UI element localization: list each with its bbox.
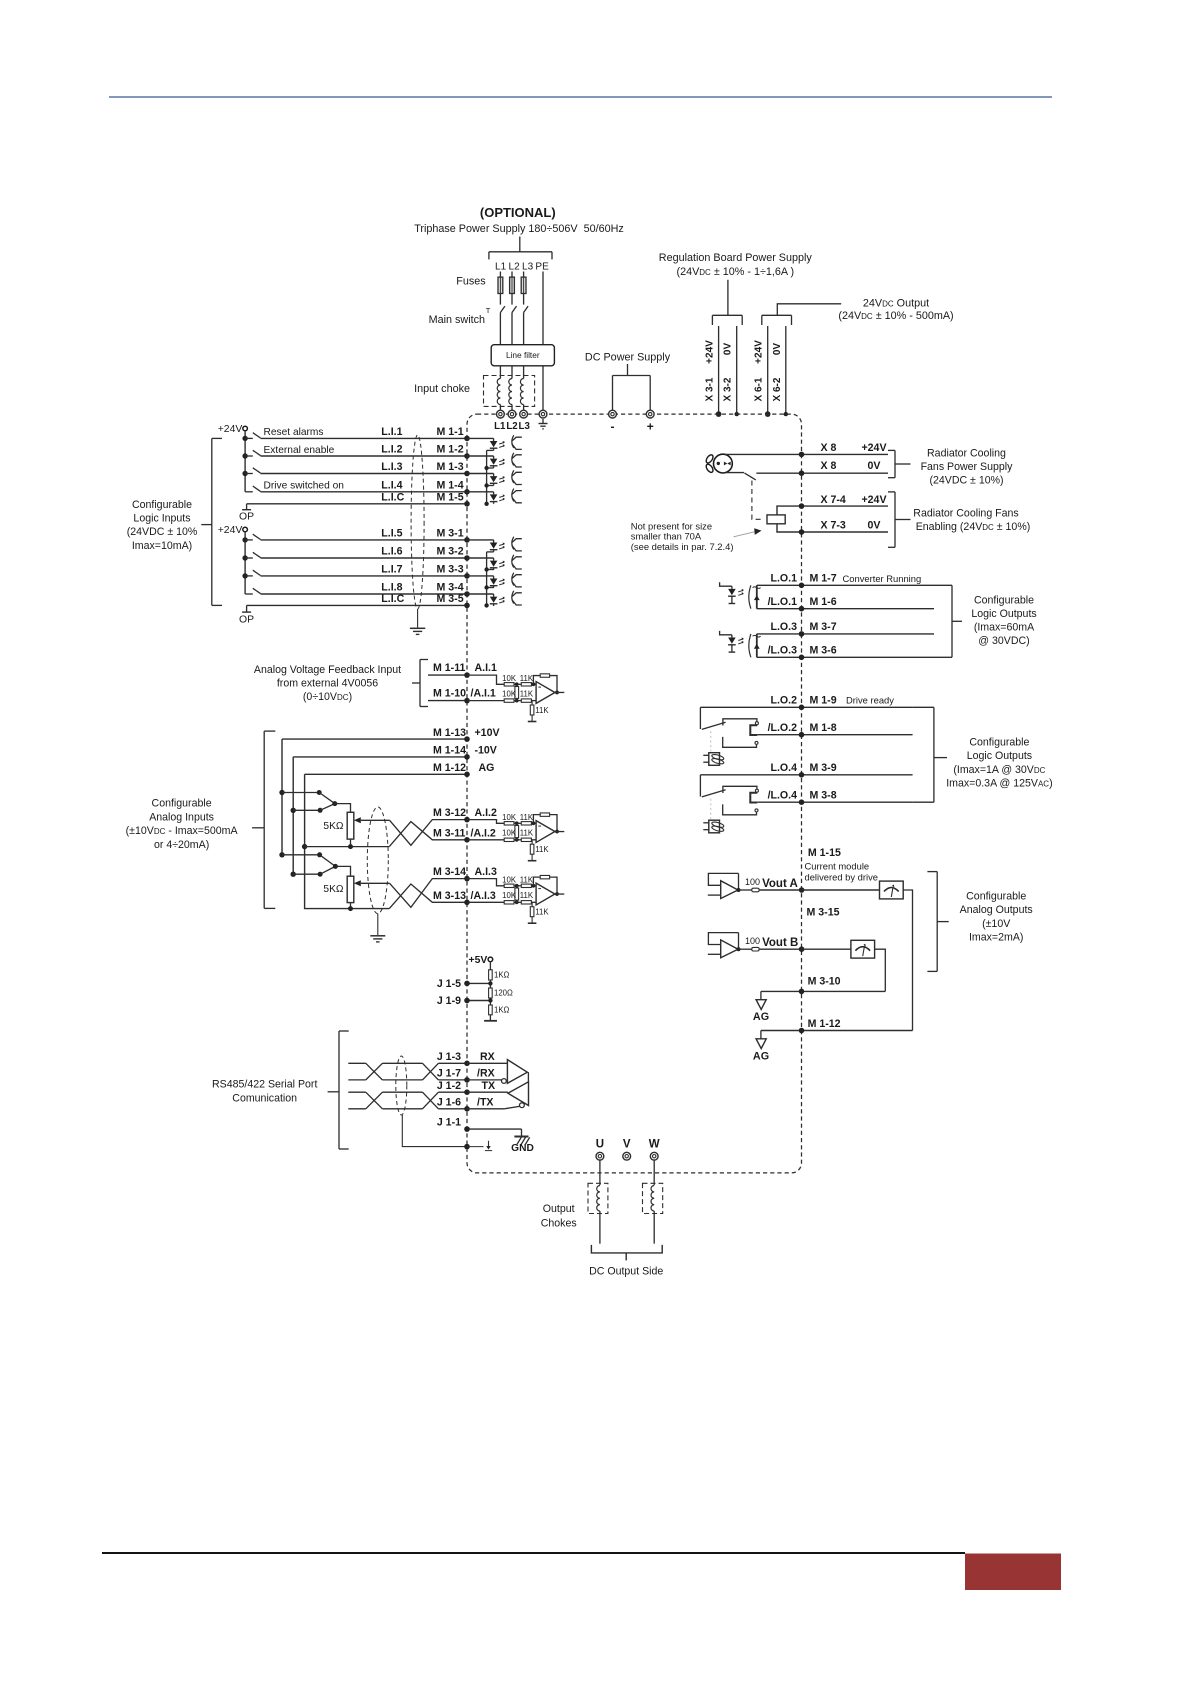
svg-text:1KΩ: 1KΩ [494,971,510,980]
svg-text:Regulation Board Power Supply: Regulation Board Power Supply [659,252,813,264]
bracket X6 pair [762,315,792,325]
terminal +24V (group1) [243,426,248,431]
svg-text:11K: 11K [520,876,534,885]
svg-text:Reset alarms: Reset alarms [264,427,324,438]
meter Vout B [851,940,875,958]
label Regulation Board Power Supply [659,252,813,264]
svg-text:A.I.3: A.I.3 [475,866,497,878]
svg-text:X 7-4: X 7-4 [821,494,846,506]
svg-text:X 6-1: X 6-1 [754,377,765,401]
junction M 3-14 border [464,876,470,882]
label Analog Outputs [960,904,1033,916]
junction M 1-5 border [464,501,470,507]
svg-text:11K: 11K [520,891,534,900]
label +5V [469,955,488,966]
svg-text:5KΩ: 5KΩ [323,821,343,832]
terminal +24V (group2) [243,527,248,532]
junction M 1-10 border [464,698,470,704]
svg-text:RX: RX [480,1051,495,1063]
wire L1 switch to line filter [499,313,501,345]
optocoupler group M3 chain [484,552,493,608]
main switch pole 3 [524,306,529,312]
main switch pole 2 [512,306,517,312]
terminal L1 on bus [497,410,505,418]
wire Vout A to meter [802,889,880,891]
label M 1-10 [433,687,466,699]
svg-text:External enable: External enable [264,445,335,456]
ground bar (5V chain) [484,1020,497,1022]
terminal PE on bus [539,410,547,418]
optocoupler U1 (L.I.1) [467,435,522,450]
junction X6-1 on bus [765,411,771,417]
label Logic Inputs [133,513,190,525]
svg-text:Current module: Current module [805,861,870,872]
svg-text:DC Output Side: DC Output Side [589,1266,663,1278]
label M 3-1 [437,528,464,540]
twisted pair A.I.2 line b [389,822,467,847]
wire J 1-1 [467,1129,522,1136]
label M 3-7 [810,621,837,633]
label Configurable (analog inputs) [152,798,212,810]
label 24VDC 10% 500mA [838,310,953,322]
junction M 3-5 border [464,603,470,609]
label or 4-20mA [154,839,209,851]
label Converter Running [843,573,922,584]
footer red block [965,1554,1061,1591]
svg-text:Analog Outputs: Analog Outputs [960,904,1033,916]
output choke coil U [597,1186,600,1212]
label (OPTIONAL) [480,205,556,220]
svg-text:L.I.C: L.I.C [381,491,404,503]
note see details [631,541,734,552]
switch L.I.7 [245,570,260,576]
svg-text:5KΩ: 5KΩ [323,884,343,895]
label M 3-6 [810,645,837,657]
svg-text:Logic Outputs: Logic Outputs [971,608,1036,620]
label 0V (X3-2) [723,343,734,356]
fuse F2 [510,277,515,293]
junction M-border L.I.7 [464,573,470,579]
svg-text:M 3-14: M 3-14 [433,866,466,878]
label M 1-12 (right) [808,1018,841,1030]
svg-text:L.O.1: L.O.1 [771,573,798,585]
label L.O.3 [771,621,798,633]
junction J 1-6 border [464,1106,470,1112]
label Input choke [414,383,470,395]
drive block dashed border [467,414,802,1173]
label Comunication [232,1092,297,1104]
label /L.O.4 [768,790,798,802]
label M 1-6 [810,596,837,608]
label TX [482,1080,496,1092]
wire L2 fuse to switch [511,294,513,305]
svg-text:11K: 11K [520,829,534,838]
wire shield to ground (analog) [377,914,379,936]
label PE (top) [535,261,549,272]
bracket A.I.1 input [412,660,428,707]
label M 3-15 [807,907,840,919]
wire -10V rail [292,757,294,874]
input choke dashed box [484,376,535,407]
switch L.I.5 [245,534,260,540]
op-amp Vout B [708,933,802,958]
label Output [543,1203,575,1215]
wire L2 line filter to choke [511,366,513,379]
svg-text:Configurable: Configurable [966,891,1026,903]
svg-text:Configurable: Configurable [969,737,1029,749]
shield ellipse analog inputs [367,807,388,914]
junction rail L.I.2 [242,453,247,458]
wire L.I.7 [261,575,468,577]
wire stem regulation supply [727,280,729,316]
receiver buffer (RX) [467,1060,527,1084]
svg-text:L.I.4: L.I.4 [381,479,402,491]
junction -10V/pot1 [291,808,296,813]
wire J 1-9 [467,1000,490,1002]
svg-text:J 1-9: J 1-9 [437,995,461,1007]
wire X8 +24V [725,453,888,455]
svg-text:OP: OP [239,614,254,625]
label M 1-1 [437,426,464,438]
junction L.O.4 border [799,772,805,778]
svg-text:10K: 10K [502,674,517,683]
terminal DC- on bus [609,410,617,418]
junction X7-4 border [799,503,805,509]
svg-text:J 1-7: J 1-7 [437,1068,461,1080]
junction X6-2 on bus [784,412,788,416]
label M 1-4 [437,479,464,491]
label X 6-2 [772,377,783,401]
label Vout A [762,878,798,890]
label 24VDC 10 (fans) [929,475,1003,487]
junction X8+ border [799,452,805,458]
ground symbol (analog shield) [370,936,385,942]
junction shield border [464,1144,470,1150]
dashed link fan to relay [752,481,764,520]
svg-text:Analog Inputs: Analog Inputs [149,811,214,823]
meter Vout A [880,881,904,899]
fuse F3 [521,277,526,293]
svg-text:(24VDC ± 10%: (24VDC ± 10% [127,526,198,538]
wire M 1-10 [428,700,467,702]
label plus (bus) [647,420,654,434]
ground symbol below PE terminal [539,419,548,429]
junction J 1-3 border [464,1061,470,1067]
label 0V (X6-2) [772,343,783,356]
pot RV2 wiper arrow [354,880,390,886]
wire X3-2 [736,326,738,414]
wire L2 switch to line filter [511,313,513,345]
bracket triphase supply [489,252,552,260]
label J 1-1 [437,1117,461,1129]
label Configurable (AO) [966,891,1026,903]
label M 1-13 [433,727,466,739]
svg-text:Output: Output [543,1203,575,1215]
label +24V (group2) [218,525,243,536]
wire RS485 shield to border [402,1115,467,1147]
label L.I.4 [381,479,402,491]
junction rail L.I.3 [242,471,247,476]
junction J 1-1 border [464,1126,470,1132]
svg-text:J 1-6: J 1-6 [437,1096,461,1108]
label A.I.1 [475,662,497,674]
wire X6-2 [785,326,787,414]
switch pot1 from +10V [282,790,335,804]
label Enabling 24VDC [916,521,1031,533]
note not present for size [631,520,712,531]
svg-text:L.I.3: L.I.3 [381,461,402,473]
svg-text:M 3-10: M 3-10 [808,976,841,988]
junction M 3-13 border [464,900,470,906]
svg-text:+24V: +24V [754,340,765,364]
wire DC plus [649,381,651,410]
svg-text:A.I.1: A.I.1 [475,662,497,674]
label L1 (top) [495,261,507,272]
wire pot2 bottom [348,903,353,912]
svg-text:(Imax=60mA: (Imax=60mA [974,622,1035,634]
svg-text:M 3-3: M 3-3 [437,564,464,576]
label L.O.4 [771,762,798,774]
svg-text:+5V: +5V [469,955,488,966]
label 24VDC 10pc [127,526,198,538]
svg-text:(24VDC ± 10%): (24VDC ± 10%) [929,475,1003,487]
label 0-10VDC [303,691,352,703]
label OP group1 [239,512,254,523]
junction J 1-5 border [464,981,470,987]
junction rail L.I.7 [242,573,247,578]
svg-text:Analog Voltage Feedback Input: Analog Voltage Feedback Input [254,664,401,676]
svg-text:U: U [596,1139,604,1151]
svg-text:24VDC Output: 24VDC Output [863,298,929,310]
junction M 1-13 border [464,736,470,742]
diff amplifier A.I.1 [467,674,564,722]
svg-text:M 1-2: M 1-2 [437,444,464,456]
label M 3-14 [433,866,466,878]
label Configurable (logic inputs) [132,499,192,511]
label at 30VDC [978,635,1029,647]
wire AG to pot1 bottom [305,844,390,849]
label 0V (X8) [868,460,881,472]
svg-text:M 1-12: M 1-12 [433,762,466,774]
svg-text:-: - [611,420,615,434]
svg-text:Drive ready: Drive ready [846,694,894,705]
label Analog Voltage Feedback Input [254,664,401,676]
junction +10V/pot1 [279,790,284,795]
wire L1 above fuse [499,272,501,278]
label Imax 10mA [132,540,192,552]
wire X3-1 [718,326,720,414]
svg-text:M 3-2: M 3-2 [437,546,464,558]
label 24VDC +-10% 1-1,6A [676,266,794,278]
svg-text:M 3-8: M 3-8 [810,790,837,802]
svg-text:W: W [649,1139,660,1151]
label A.I.2 [475,807,497,819]
driver buffer (TX) [467,1072,529,1109]
label Line filter [506,350,540,360]
svg-text:M 3-11: M 3-11 [433,827,465,839]
label M 3-9 [810,762,837,774]
label Radiator Cooling Fans [913,508,1018,520]
label W [649,1139,660,1151]
switch pot1 from -10V [293,804,335,813]
svg-text:L.I.C: L.I.C [381,593,404,605]
AG symbol 1 [756,991,766,1009]
wire U below choke [599,1211,601,1244]
shield ellipse logic inputs [411,435,424,609]
switch L.I.1 [245,433,260,439]
potentiometer RV2 5K [347,876,354,902]
svg-text:M 1-11: M 1-11 [433,662,465,674]
terminal U [596,1152,604,1160]
svg-text:11K: 11K [520,674,534,683]
main switch pole 1 [500,306,505,312]
junction L.O.1 border [799,583,805,589]
label 100 (Vout B) [745,936,760,946]
junction /L.O.2 border [799,732,805,738]
wire stem DC power supply [627,364,629,376]
label Imax=60mA [974,622,1035,634]
label Imax=0.3A at 125VAC [946,777,1052,789]
svg-text:L3: L3 [519,421,531,432]
note Current module [805,861,870,872]
switch L.I.2 [245,450,260,456]
junction X3-1 on bus [716,411,722,417]
label 0V (X7) [868,520,881,532]
switch fan enable [745,473,756,480]
label M 3-13 [433,890,466,902]
wire M 1-12 (AG) [305,773,467,775]
label DC Power Supply [585,352,671,364]
label X 8 (0V row) [821,460,837,472]
label L.I.5 [381,528,402,540]
wire M 1-12 row (right) [761,1030,913,1032]
label AG (row) [479,762,495,774]
label 24VDC Output [863,298,929,310]
svg-text:V: V [623,1139,631,1151]
optocoupler U7 (L.I.7) [467,573,522,588]
svg-text:Chokes: Chokes [541,1217,577,1229]
bracket logic inputs [201,438,222,605]
label X 7-4 [821,494,846,506]
junction J 1-9 chain [488,998,492,1002]
wire DC minus [612,381,614,410]
svg-text:Main switch: Main switch [429,314,485,326]
svg-text:11K: 11K [520,689,534,698]
label Logic Outputs (LO2) [967,750,1032,762]
shield ellipse RS485 [396,1056,407,1115]
op-amp Vout A [708,873,802,898]
wire +5V to R chain [489,962,491,970]
label J 1-6 [437,1096,461,1108]
terminal L2 on bus [508,410,516,418]
label 5K ohm RV1 [323,821,343,832]
bracket logic outputs 1 [934,585,962,657]
svg-text:L1: L1 [494,421,506,432]
svg-text:11K: 11K [535,908,549,917]
junction X3-2 on bus [735,412,739,416]
svg-text:/L.O.2: /L.O.2 [768,722,798,734]
note delivered by drive [805,872,878,883]
wire L1 choke to terminal [499,405,501,411]
label +24V (X7) [861,494,886,506]
label M 3-11 [433,827,465,839]
junction J 1-9 border [464,998,470,1004]
junction J 1-5 chain [488,981,492,985]
svg-text:J 1-5: J 1-5 [437,978,461,990]
svg-text:L3: L3 [522,261,534,272]
resistor 120 ohm [489,988,493,998]
wire +10V rail [281,739,283,855]
junction L.O.3 border [799,631,805,637]
bracket analog outputs [927,872,948,972]
optocoupler U2 (L.I.2) [467,453,522,468]
svg-text:+10V: +10V [475,727,500,739]
svg-text:/TX: /TX [477,1096,493,1108]
svg-text:AG: AG [753,1051,769,1063]
svg-text:AG: AG [753,1011,769,1023]
junction M-border L.I.3 [464,471,470,477]
wire Vout B to meter [802,948,851,950]
wire L.O.3 [757,633,934,635]
wire L.I.1 [261,437,468,439]
junction M 1-11 border [464,672,470,678]
wire /L.O.1 [757,608,934,610]
bracket X8 [888,450,911,477]
twisted pair RX//RX [348,1063,467,1080]
wire L.I.3 [261,473,468,475]
wire X 7-3 [777,524,888,532]
svg-text:RS485/422 Serial Port: RS485/422 Serial Port [212,1078,317,1090]
OP terminal group2 [242,605,251,612]
header rule [109,96,1052,98]
wire M 1-14 (-10V) [293,756,467,758]
label Imax=1A at 30VDC [953,764,1045,776]
svg-text:+24V: +24V [218,424,243,435]
junction M-border L.I.8 [464,591,470,597]
wire 24V output leader [777,304,841,316]
junction M-border L.I.4 [464,489,470,495]
label V [623,1139,631,1151]
diff amplifier A.I.3 [467,875,564,923]
svg-text:L2: L2 [506,421,517,432]
junction X8- border [799,470,805,476]
wire L.O.1 [757,584,934,586]
svg-text:0V: 0V [772,343,783,356]
svg-text:J 1-3: J 1-3 [437,1051,461,1063]
label RS485/422 Serial Port [212,1078,317,1090]
label Configurable (LO2) [969,737,1029,749]
svg-text:10K: 10K [502,813,517,822]
junction rail L.I.5 [242,537,247,542]
svg-text:11K: 11K [535,845,549,854]
label M 1-7 [810,573,837,585]
note smaller than 70A [631,531,702,542]
wire L1 fuse to switch [499,294,501,305]
wire stem from triphase label [519,237,521,252]
bracket DC power supply [613,376,651,382]
wire L.O.2 [700,706,912,708]
wire meter A to return [903,890,912,1031]
svg-text:0V: 0V [723,343,734,356]
wire L1 line filter to choke [499,366,501,379]
svg-text:M 1-14: M 1-14 [433,745,466,757]
wire /L.O.3 [757,656,934,658]
wire X 7-4 [777,506,888,515]
svg-text:M 1-12: M 1-12 [808,1018,841,1030]
label /L.O.1 [768,596,798,608]
wire M 1-13 (+10V) [282,738,467,740]
twisted pair TX//TX [348,1092,467,1109]
